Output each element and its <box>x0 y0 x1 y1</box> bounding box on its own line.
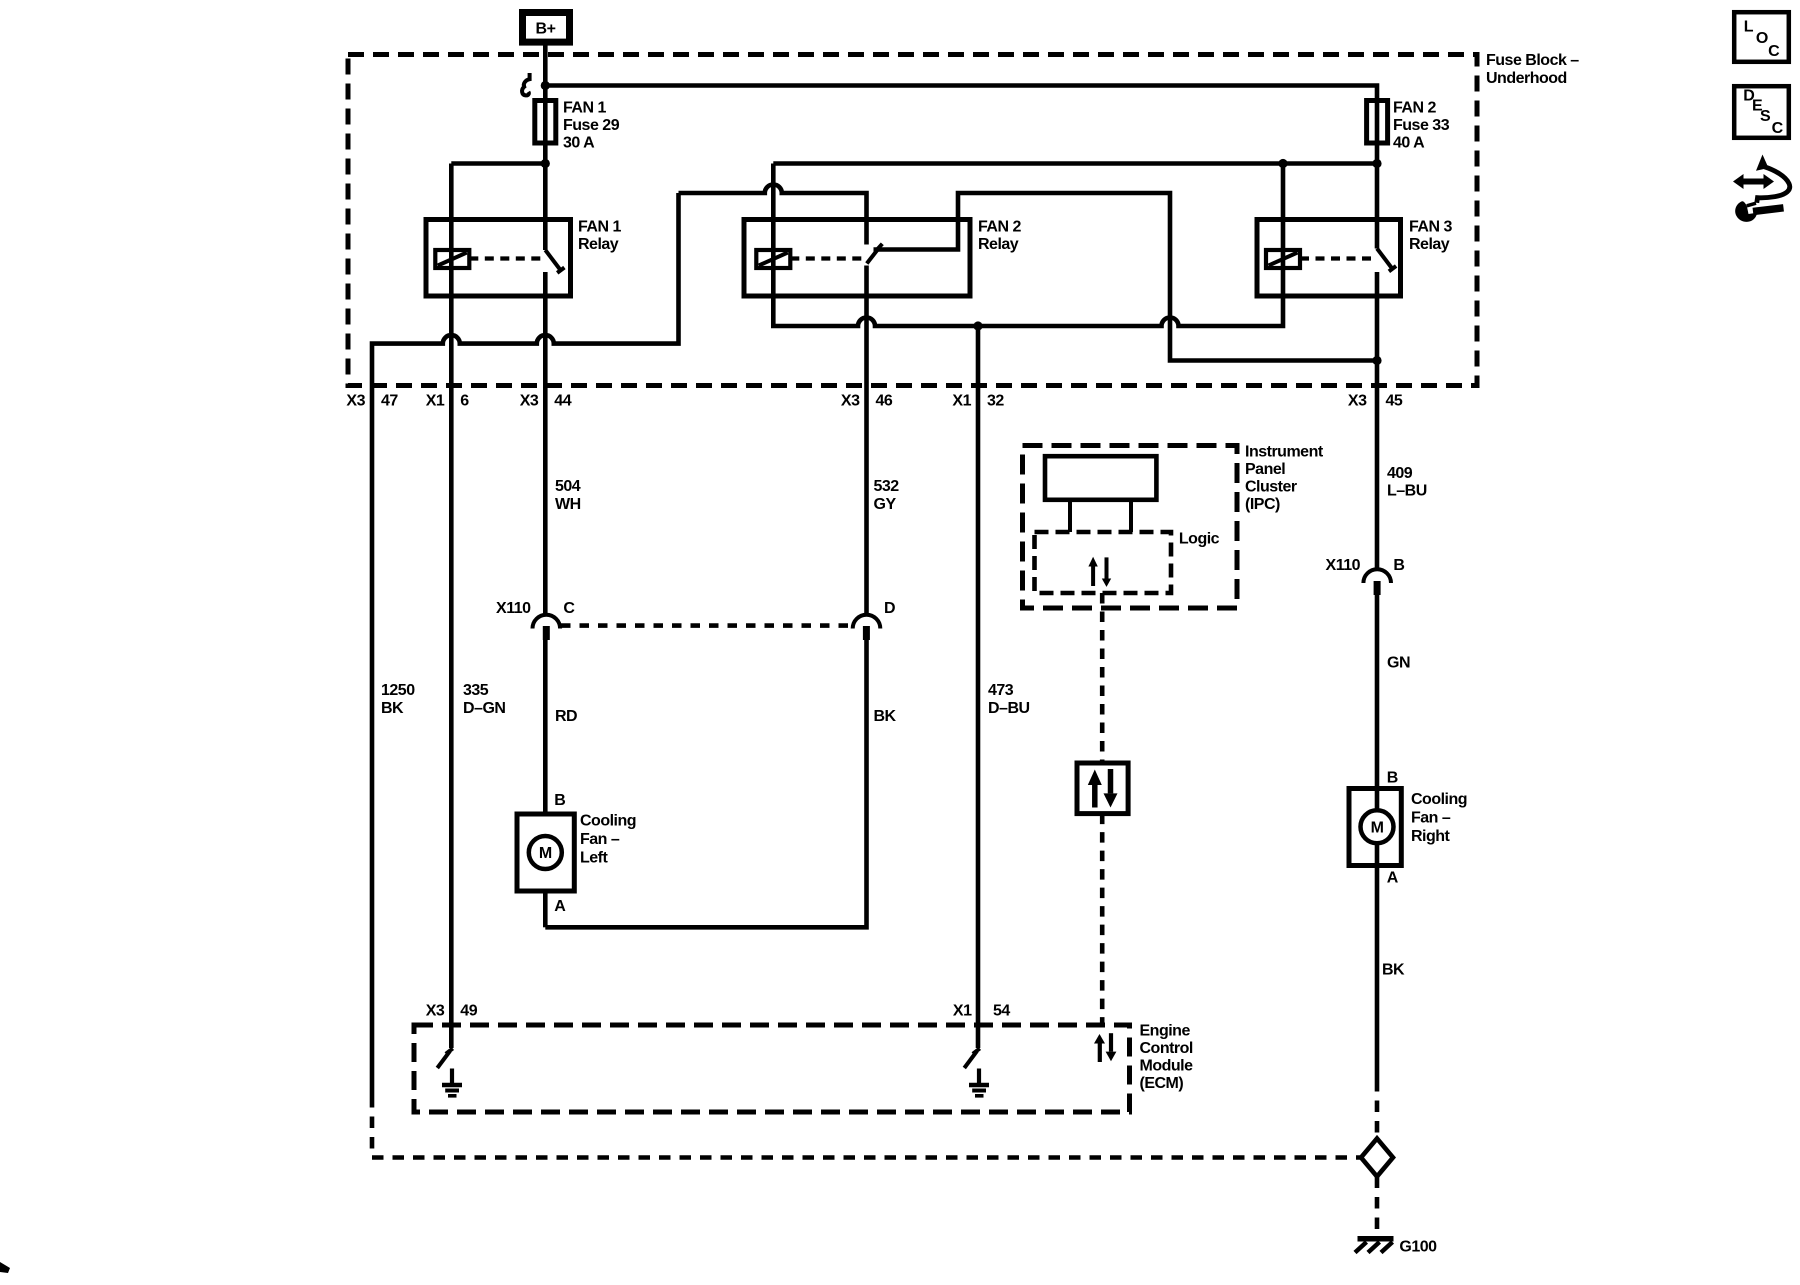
motor cooling fan right <box>1349 789 1401 866</box>
svg-text:6: 6 <box>460 393 469 410</box>
wire FAN1 relay coil feed down to ECM ground X3-49 <box>449 164 454 1049</box>
svg-text:O: O <box>1756 30 1768 47</box>
junction dot FAN3 output / FAN2 output <box>1372 356 1381 365</box>
svg-text:X1: X1 <box>953 1003 972 1020</box>
wire B+ bus to Fuse 33 <box>545 86 1377 101</box>
label Cooling Fan - Left <box>580 813 636 867</box>
splice curl at B+ junction <box>522 73 530 95</box>
label X3 46 <box>841 393 893 410</box>
svg-text:Logic: Logic <box>1179 531 1220 548</box>
label X3 49 <box>426 1003 478 1020</box>
svg-text:30 A: 30 A <box>563 135 595 152</box>
relay FAN3 coil <box>1266 250 1300 268</box>
relay FAN2 coil-switch dashed link <box>790 256 862 260</box>
IPC head box <box>1045 456 1156 500</box>
label 504 WH <box>555 478 581 513</box>
relay FAN2 box <box>744 220 970 297</box>
IPC dashed box <box>1023 446 1238 609</box>
svg-text:Relay: Relay <box>578 236 619 253</box>
wire X110-B down to cooling fan right, continues to BK end <box>1375 595 1380 1080</box>
wire fuse33 through FAN3 relay switch pivot <box>1375 100 1380 249</box>
dashed wire 1250 BK to G100 splice <box>372 1096 1361 1158</box>
relay FAN2 switch blade <box>867 249 879 264</box>
ground symbol left <box>442 1069 462 1096</box>
svg-text:B: B <box>1387 770 1398 787</box>
fuse FAN 1 Fuse 29 30A <box>535 101 556 144</box>
svg-text:44: 44 <box>554 393 571 410</box>
label FAN 3 Relay <box>1409 219 1452 254</box>
svg-text:Fuse Block –: Fuse Block – <box>1486 52 1579 69</box>
svg-text:Module: Module <box>1140 1058 1194 1075</box>
label Instrument Panel Cluster (IPC) <box>1245 444 1324 514</box>
label FAN 1 Fuse 29 30 A <box>563 100 620 152</box>
svg-text:Underhood: Underhood <box>1486 70 1567 87</box>
svg-text:M: M <box>1371 819 1384 836</box>
label X3 47 <box>346 393 398 410</box>
svg-text:B: B <box>1393 557 1404 574</box>
svg-text:47: 47 <box>381 393 398 410</box>
svg-text:BK: BK <box>1382 962 1405 979</box>
svg-text:32: 32 <box>987 393 1004 410</box>
relay FAN1 switch blade <box>545 250 561 271</box>
label 1250 BK <box>381 682 415 717</box>
wire fuse33 bus feeding FAN2 coil, FAN3 coil, FAN3 switch <box>773 161 1377 166</box>
junction dot B+ bus <box>541 81 550 90</box>
svg-text:54: 54 <box>993 1003 1010 1020</box>
svg-text:Cluster: Cluster <box>1245 479 1297 496</box>
svg-text:46: 46 <box>876 393 893 410</box>
dashed wire below splice <box>1375 1177 1380 1234</box>
svg-text:FAN 2: FAN 2 <box>978 219 1021 236</box>
svg-text:GN: GN <box>1387 655 1410 672</box>
relay FAN1 box <box>426 220 571 297</box>
wire FAN2 switch common X3-46 down to X110-D <box>864 266 869 614</box>
svg-text:L–BU: L–BU <box>1387 483 1427 500</box>
svg-text:1250: 1250 <box>381 682 415 699</box>
wire B+ feed down through Fuse 29 to FAN1 relay switch pivot <box>543 46 548 251</box>
DESC icon box <box>1734 86 1789 138</box>
label 409 L-BU <box>1387 465 1427 500</box>
svg-text:M: M <box>539 845 552 862</box>
svg-text:Control: Control <box>1140 1040 1193 1057</box>
wire FAN1 switch output X3-44 down to X110-C <box>543 272 548 613</box>
svg-text:49: 49 <box>460 1003 477 1020</box>
relay FAN1 blade tip tick <box>557 268 564 273</box>
LOC icon box <box>1734 12 1789 62</box>
svg-text:40 A: 40 A <box>1393 135 1425 152</box>
label 532 GY <box>874 478 900 513</box>
svg-text:X3: X3 <box>1348 393 1367 410</box>
motor cooling fan left <box>517 814 574 891</box>
svg-text:X1: X1 <box>426 393 445 410</box>
wire coil return X1-32 down to ECM ground X1-54 <box>976 326 981 1048</box>
label X1 6 <box>426 393 470 410</box>
svg-text:RD: RD <box>555 708 577 725</box>
serial data box with up-down arrows <box>1077 763 1128 814</box>
ECM ground switch right <box>964 1048 980 1068</box>
wire FAN2 blade tip to FAN3 switch output junction <box>874 193 1378 361</box>
svg-text:Cooling: Cooling <box>1411 791 1467 808</box>
svg-text:C: C <box>563 600 575 617</box>
svg-text:409: 409 <box>1387 465 1413 482</box>
ECM ground switch left <box>437 1048 453 1068</box>
splice diamond <box>1361 1139 1393 1177</box>
dashed wire BK above splice <box>1375 1080 1380 1139</box>
label X1 54 <box>953 1003 1010 1020</box>
svg-text:473: 473 <box>988 682 1014 699</box>
wire riser x678 and bottom link to X3-47, hops over relay wires <box>372 193 679 1096</box>
ground symbol right <box>969 1069 989 1096</box>
svg-text:Fan –: Fan – <box>1411 810 1451 827</box>
svg-text:X110: X110 <box>1326 557 1361 574</box>
svg-text:FAN 2: FAN 2 <box>1393 100 1436 117</box>
svg-text:Instrument: Instrument <box>1245 444 1324 461</box>
svg-text:Panel: Panel <box>1245 461 1285 478</box>
relay FAN3 blade tip tick <box>1389 266 1396 271</box>
wire FAN2 relay coil feed down and over to FAN3 coil bottom, with hops <box>773 164 1283 327</box>
wire FAN3 switch output X3-45 down to X110-B <box>1375 272 1380 569</box>
wire RD from X110-C to cooling fan left B <box>543 640 548 814</box>
relay FAN2 coil <box>756 250 790 268</box>
dashed pair link X110 C-D <box>561 623 852 628</box>
svg-text:FAN 3: FAN 3 <box>1409 219 1452 236</box>
label X3 44 <box>520 393 572 410</box>
label Engine Control Module (ECM) <box>1140 1023 1194 1093</box>
ground G100 chassis symbol <box>1355 1239 1394 1253</box>
ECM serial data arrows <box>1094 1033 1116 1062</box>
svg-text:Fuse 29: Fuse 29 <box>563 117 620 134</box>
label Cooling Fan - Right <box>1411 791 1467 845</box>
svg-text:Cooling: Cooling <box>580 813 636 830</box>
junction dot coil return to ECM <box>973 321 982 330</box>
relay FAN1 coil <box>435 250 469 268</box>
svg-text:504: 504 <box>555 478 581 495</box>
svg-text:X3: X3 <box>841 393 860 410</box>
connector X110 D <box>853 615 881 640</box>
logic dashed box <box>1035 532 1172 593</box>
label FAN 2 Relay <box>978 219 1021 254</box>
svg-text:335: 335 <box>463 682 489 699</box>
svg-text:Relay: Relay <box>1409 236 1450 253</box>
svg-text:X3: X3 <box>520 393 539 410</box>
svg-text:Left: Left <box>580 850 609 867</box>
IPC head stubs <box>1068 500 1072 532</box>
svg-text:A: A <box>554 898 566 915</box>
relay FAN3 coil-switch dashed link <box>1300 256 1374 260</box>
wire fuse29 output bus to FAN1 relay coil <box>451 161 545 166</box>
svg-text:X1: X1 <box>952 393 971 410</box>
svg-text:45: 45 <box>1386 393 1403 410</box>
connector X110 B <box>1363 569 1391 595</box>
svg-text:D: D <box>884 600 895 617</box>
svg-text:X3: X3 <box>426 1003 445 1020</box>
label FAN 1 Relay <box>578 219 621 254</box>
label Fuse Block - Underhood <box>1486 52 1579 87</box>
label X110 B <box>1326 557 1405 574</box>
wire fan left A to loop corner <box>543 891 548 927</box>
svg-text:FAN 1: FAN 1 <box>578 219 621 236</box>
svg-text:BK: BK <box>874 708 897 725</box>
hotlink arrows-wrench icon <box>1733 155 1790 222</box>
junction dot FAN3 coil feed <box>1278 159 1287 168</box>
label X1 32 <box>952 393 1004 410</box>
fuse FAN 2 Fuse 33 40A <box>1367 101 1388 144</box>
relay FAN3 switch blade <box>1377 249 1393 270</box>
svg-text:L: L <box>1744 18 1754 35</box>
wire FAN1 switch output link at y193 to FAN2 switch common, hop over coil feed <box>679 185 867 245</box>
logic up-down arrows <box>1088 557 1111 587</box>
ECM dashed box <box>414 1025 1130 1112</box>
fuse block - underhood dashed box <box>348 55 1477 386</box>
svg-text:Fan –: Fan – <box>580 831 620 848</box>
dashed wire serial data box to ECM <box>1100 814 1105 1025</box>
edge artifact mark bottom left <box>0 1262 10 1273</box>
svg-text:X110: X110 <box>496 600 531 617</box>
label X110 C <box>496 600 575 617</box>
label 473 D-BU <box>988 682 1030 717</box>
svg-text:B+: B+ <box>536 21 556 38</box>
svg-text:X3: X3 <box>346 393 365 410</box>
svg-text:Fuse 33: Fuse 33 <box>1393 117 1450 134</box>
svg-text:D–GN: D–GN <box>463 700 505 717</box>
svg-text:S: S <box>1760 108 1771 125</box>
connector X110 C <box>533 615 561 640</box>
svg-text:FAN 1: FAN 1 <box>563 100 606 117</box>
svg-text:Relay: Relay <box>978 236 1019 253</box>
relay FAN2 blade tip tick <box>877 244 883 250</box>
svg-text:B: B <box>554 792 565 809</box>
relay FAN1 coil-switch dashed link <box>469 256 543 260</box>
relay FAN3 box <box>1257 220 1401 297</box>
label FAN 2 Fuse 33 40 A <box>1393 100 1450 152</box>
svg-text:BK: BK <box>381 700 404 717</box>
svg-text:C: C <box>1772 120 1784 137</box>
svg-text:G100: G100 <box>1399 1239 1437 1256</box>
svg-text:C: C <box>1768 43 1780 60</box>
B+ power symbol box <box>523 13 570 43</box>
svg-text:A: A <box>1387 870 1399 887</box>
svg-text:532: 532 <box>874 478 900 495</box>
svg-text:(IPC): (IPC) <box>1245 496 1280 513</box>
svg-text:Engine: Engine <box>1140 1023 1191 1040</box>
svg-text:GY: GY <box>874 496 897 513</box>
label 335 D-GN <box>463 682 505 717</box>
svg-text:WH: WH <box>555 496 581 513</box>
svg-text:D–BU: D–BU <box>988 700 1030 717</box>
junction dot fuse33 output <box>1372 159 1381 168</box>
wire X110-D down to fan left loop corner <box>545 640 866 927</box>
dashed wire IPC logic to serial data box <box>1100 593 1105 763</box>
label X3 45 <box>1348 393 1403 410</box>
junction dot fuse29 output <box>541 159 550 168</box>
svg-text:(ECM): (ECM) <box>1140 1075 1184 1092</box>
svg-text:Right: Right <box>1411 828 1451 845</box>
